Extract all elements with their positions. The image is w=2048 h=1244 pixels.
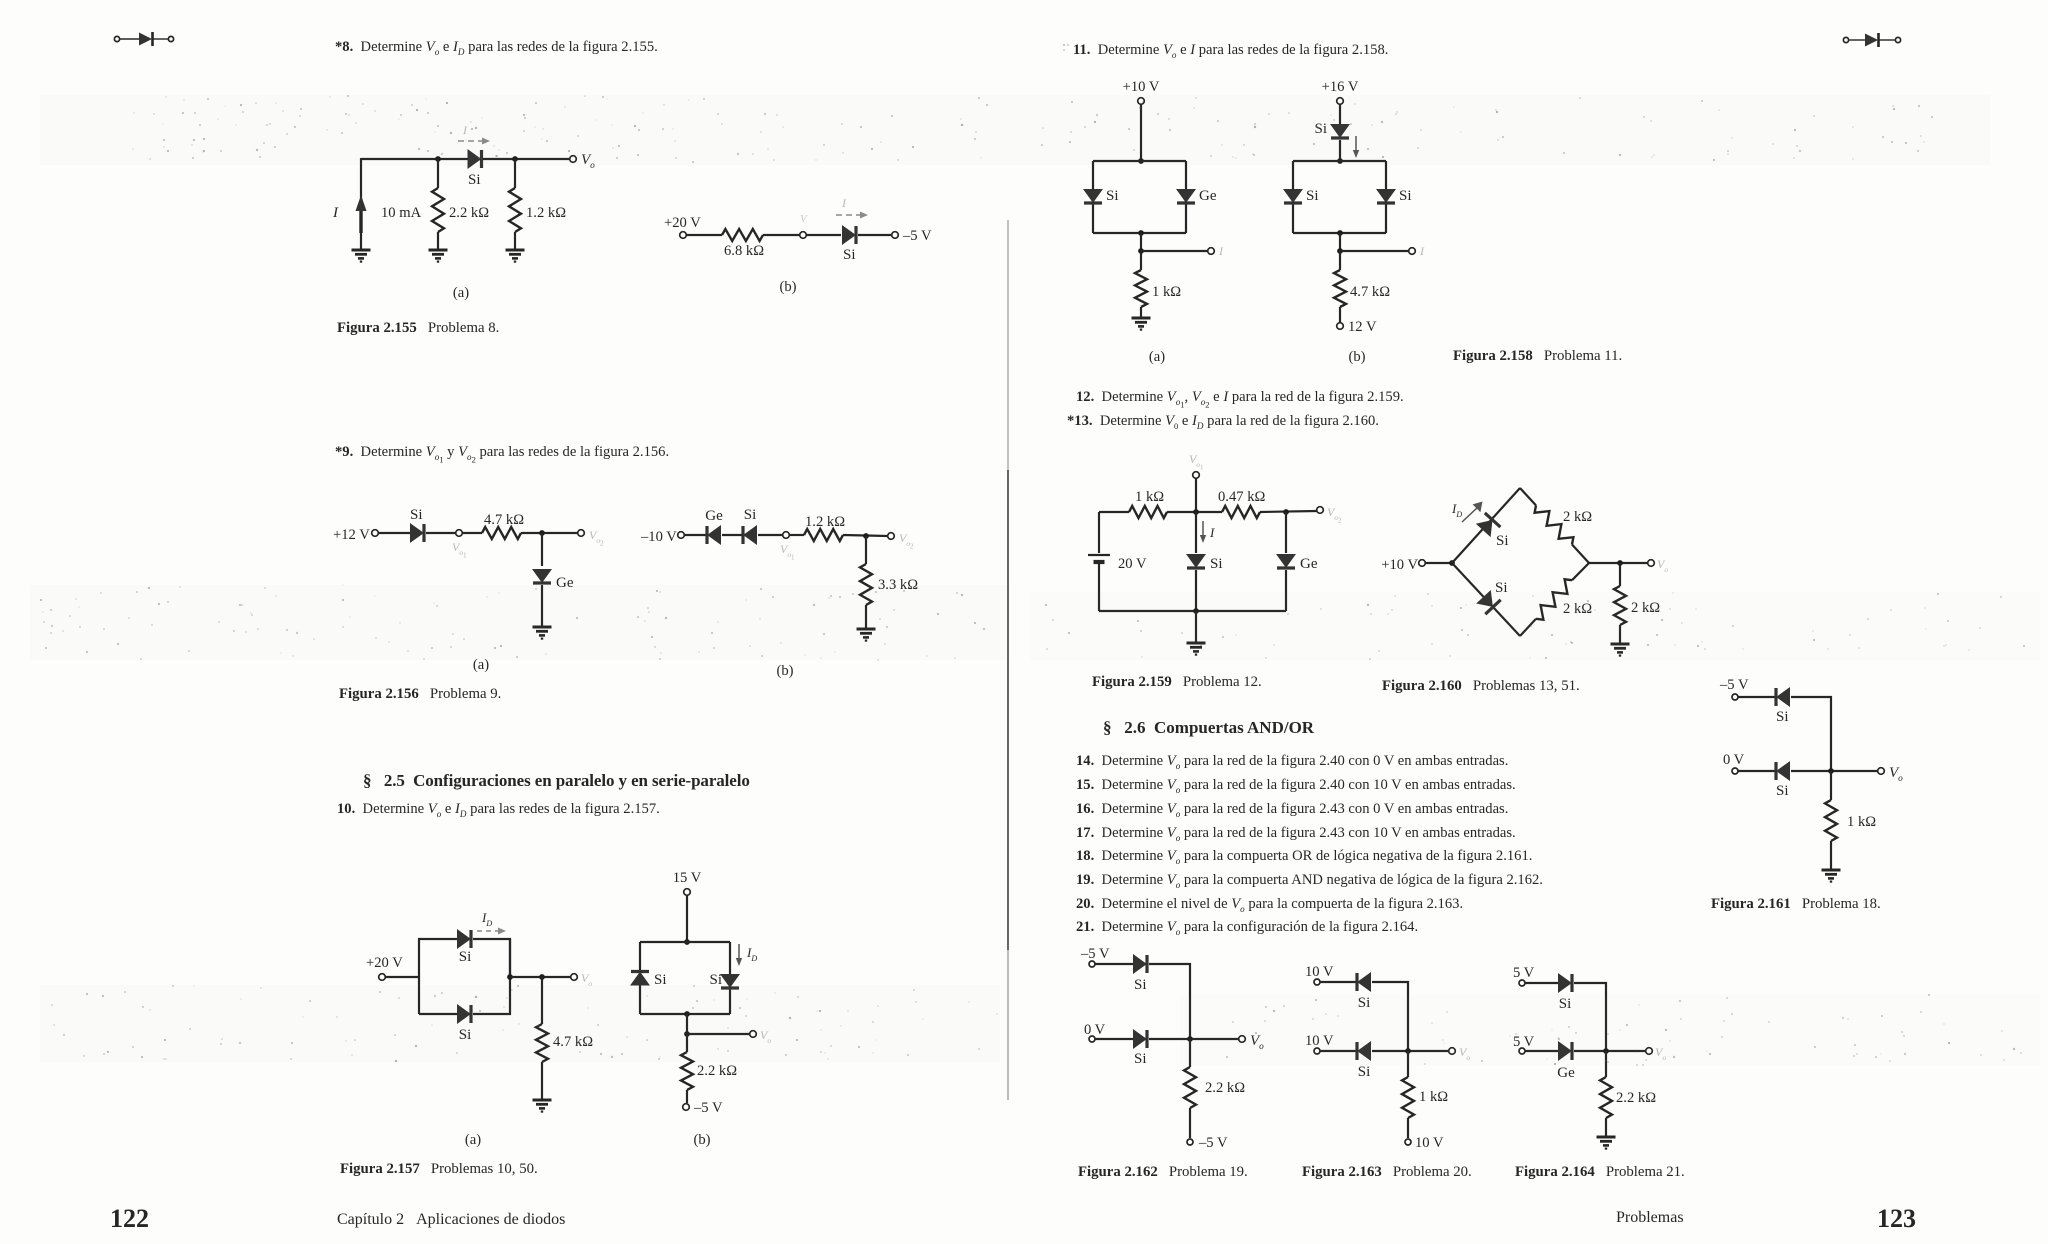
svg-text:(b): (b): [1348, 349, 1365, 365]
svg-text:Capítulo 2 Aplicaciones de d: Capítulo 2 Aplicaciones de diodos: [337, 1211, 565, 1228]
fig2.160 diode D1 Si (to top): [1477, 513, 1500, 536]
fig2.161 node: [1828, 768, 1834, 774]
fig2.156a wire diode to ground: [541, 585, 543, 626]
fig2.162 diode D2 Si (right): [1134, 1030, 1148, 1048]
svg-text:(a): (a): [465, 1132, 481, 1148]
svg-text:6.8 kΩ: 6.8 kΩ: [724, 243, 764, 259]
fig2.157b right diode Si (down): [721, 975, 739, 989]
svg-text:11. Determine Vo e I para las: 11. Determine Vo e I para las redes de l…: [1073, 42, 1388, 60]
svg-text:–10 V: –10 V: [640, 529, 677, 545]
page corner diode icon (right page): [1843, 33, 1900, 47]
fig2.157b node B: [684, 1031, 690, 1037]
fig2.163 resistor 1k: [1402, 1077, 1414, 1118]
svg-text:Figura 2.155 Problema 8.: Figura 2.155 Problema 8.: [337, 320, 499, 336]
fig2.160 input terminal: [1419, 560, 1426, 567]
fig2.163 bottom terminal: [1405, 1139, 1411, 1145]
fig2.158a top terminal: [1138, 98, 1145, 105]
fig2.164 resistor 2.2k: [1600, 1077, 1612, 1118]
fig2.159 resistor R2 0.47k: [1222, 506, 1260, 518]
fig2.162 node: [1187, 1036, 1193, 1042]
svg-text:12 V: 12 V: [1348, 319, 1377, 335]
svg-text:1 kΩ: 1 kΩ: [1419, 1089, 1448, 1105]
fig2.155a current arrow I (dashed): [458, 138, 490, 145]
stray print dots: [1063, 44, 1069, 51]
svg-text:(a): (a): [1149, 349, 1165, 365]
fig2.159 right branch wire bottom: [1285, 570, 1287, 611]
fig2.159 center branch wire bottom: [1195, 570, 1197, 611]
svg-text:Si: Si: [468, 172, 481, 188]
svg-text:Ge: Ge: [1557, 1065, 1575, 1081]
fig2.160 resistor lead: [1619, 563, 1621, 586]
fig2.157a output terminal Vo: [571, 974, 578, 981]
fig2.162 wire D1 to corner: [1149, 964, 1190, 1039]
fig2.158b bottom rail: [1293, 232, 1386, 234]
fig2.159 bottom rail: [1099, 610, 1286, 612]
svg-text:0 V: 0 V: [1084, 1022, 1106, 1038]
fig2.158a ground: [1132, 318, 1151, 330]
fig2.158b series diode Si (down): [1331, 125, 1349, 139]
fig2.158b left branch wire: [1292, 161, 1294, 233]
fig2.155b current arrow I (dashed): [836, 212, 868, 219]
svg-text:2.2 kΩ: 2.2 kΩ: [697, 1063, 737, 1079]
fig2.163 diode D2 Si (left): [1357, 1042, 1371, 1060]
fig2.156a wire node to resistor: [462, 532, 482, 534]
svg-text:10. Determine Vo e ID para la: 10. Determine Vo e ID para las redes de …: [337, 801, 660, 819]
fig2.162 resistor 2.2k: [1184, 1067, 1196, 1108]
fig2.160 wire to ground: [1619, 625, 1621, 643]
fig2.160 node (output branch): [1617, 560, 1623, 566]
svg-text:17. Determine Vo para la red: 17. Determine Vo para la red de la figur…: [1076, 825, 1516, 843]
fig2.163 wire D2 to node: [1372, 1050, 1449, 1052]
fig2.156a input terminal: [372, 530, 379, 537]
fig2.157b wire terminal to rail: [686, 895, 688, 942]
fig2.164 wire input2 to diode: [1525, 1050, 1558, 1052]
fig2.158a diode D1 Si (down): [1084, 190, 1102, 204]
fig2.155a resistor R2 lead: [514, 159, 516, 188]
svg-text:ID: ID: [1451, 501, 1462, 519]
svg-text:Vo: Vo: [1657, 557, 1668, 574]
svg-text:+16 V: +16 V: [1322, 79, 1359, 95]
fig2.158a resistor 1k: [1135, 270, 1147, 307]
fig2.156b wire resistor to node: [843, 535, 888, 536]
fig2.157b wire to output: [687, 1033, 750, 1035]
svg-text:Vo: Vo: [1889, 765, 1903, 784]
fig2.155a ground (R2): [506, 250, 525, 262]
fig2.157a dashed current arrow: [477, 928, 506, 935]
fig2.158a left branch wire: [1092, 161, 1094, 233]
scan tone wash bands: [30, 95, 2040, 1065]
fig2.164 input terminal 2: [1519, 1048, 1525, 1054]
fig2.156b resistor 1.2k: [804, 529, 843, 541]
fig2.156b input terminal: [678, 532, 685, 539]
svg-text:Vo1: Vo1: [1189, 452, 1204, 472]
svg-text:Si: Si: [1399, 188, 1412, 204]
svg-text:–5 V: –5 V: [1080, 946, 1110, 962]
fig2.156a node B: [539, 530, 545, 536]
page gutter line: [1007, 220, 1009, 1100]
fig2.156b node B: [863, 533, 869, 539]
fig2.160 bridge edge B-R with resistor: [1520, 563, 1589, 636]
fig2.157b current arrow ID: [736, 944, 742, 966]
fig2.158b top rail: [1293, 160, 1386, 162]
svg-text:I: I: [1209, 525, 1215, 540]
fig2.163 output terminal Vo: [1449, 1048, 1456, 1055]
fig2.159 diode Si (down): [1187, 555, 1205, 569]
fig2.160 output terminal Vo: [1648, 560, 1655, 567]
svg-text:2.2 kΩ: 2.2 kΩ: [1205, 1080, 1245, 1096]
svg-text:V: V: [800, 213, 808, 225]
svg-text:Figura 2.162 Problema 19.: Figura 2.162 Problema 19.: [1078, 1164, 1248, 1180]
svg-text:+10 V: +10 V: [1123, 79, 1160, 95]
fig2.160 ground: [1611, 644, 1630, 656]
fig2.161 wire D1 to corner: [1791, 697, 1831, 771]
svg-text:I: I: [841, 196, 847, 210]
fig2.159 battery 20V: [1088, 555, 1110, 562]
svg-text:+20 V: +20 V: [366, 955, 403, 971]
fig2.159 top rail right: [1260, 511, 1317, 512]
fig2.158a junction node (top): [1138, 158, 1144, 164]
svg-text:Si: Si: [1134, 977, 1147, 993]
fig2.156b wire node to resistor: [789, 534, 804, 536]
svg-text:10 V: 10 V: [1305, 964, 1334, 980]
fig2.155a wire top rail: [361, 158, 468, 160]
fig2.158a wire terminal to rail: [1140, 104, 1142, 161]
svg-text:Si: Si: [1776, 709, 1789, 725]
svg-text:+12 V: +12 V: [333, 527, 370, 543]
fig2.158a wire to node: [1140, 233, 1142, 251]
svg-text:Figura 2.156 Problema 9.: Figura 2.156 Problema 9.: [339, 686, 501, 702]
fig2.155b wire diode to output: [858, 234, 892, 236]
fig2.155a ground (current source): [352, 250, 371, 262]
fig2.158b wire to output: [1340, 250, 1409, 252]
fig2.161 wire input2 to diode: [1738, 770, 1775, 772]
fig2.161 diode D1 Si (left): [1776, 688, 1790, 706]
svg-text:Problemas: Problemas: [1616, 1209, 1684, 1226]
svg-text:20. Determine el nivel de Vo: 20. Determine el nivel de Vo para la com…: [1076, 896, 1463, 914]
fig2.160 node (left vertex): [1449, 560, 1455, 566]
fig2.158b node B: [1337, 248, 1343, 254]
fig2.156b wire to diode Ge: [684, 534, 706, 536]
fig2.155b input terminal: [680, 232, 687, 239]
fig2.160 bridge edge L-B: [1452, 563, 1520, 636]
fig2.155a diode D1 Si: [468, 150, 482, 168]
svg-text:(b): (b): [776, 663, 793, 679]
fig2.155a resistor R1 lead2: [437, 232, 439, 249]
fig2.158b right branch wire: [1385, 161, 1387, 233]
fig2.158b wire to node: [1339, 233, 1341, 251]
fig2.157b resistor lead: [686, 1034, 688, 1052]
svg-text:Figura 2.164 Problema 21.: Figura 2.164 Problema 21.: [1515, 1164, 1685, 1180]
fig2.162 output terminal Vo: [1239, 1036, 1246, 1043]
fig2.164 ground: [1597, 1137, 1616, 1149]
svg-text:–5 V: –5 V: [693, 1100, 723, 1116]
svg-text:Figura 2.161 Problema 18.: Figura 2.161 Problema 18.: [1711, 896, 1881, 912]
svg-text:2.2 kΩ: 2.2 kΩ: [449, 205, 489, 221]
fig2.155b diode Si: [843, 226, 857, 244]
fig2.158a wire to ground: [1140, 307, 1142, 317]
fig2.162 wire input1 to diode: [1095, 963, 1133, 965]
fig2.161 input terminal 2: [1732, 768, 1738, 774]
fig2.156b output terminal Vo2: [888, 533, 895, 540]
fig2.161 wire input1 to diode: [1738, 696, 1775, 698]
fig2.159 resistor R1 1k: [1129, 506, 1167, 518]
fig2.162 input terminal 1: [1089, 961, 1095, 967]
svg-text:Si: Si: [1776, 783, 1789, 799]
svg-text:ID: ID: [746, 945, 757, 963]
svg-text:(b): (b): [779, 279, 796, 295]
fig2.156b diode Si (left): [743, 526, 757, 544]
fig2.158b diode D1 Si (down): [1284, 190, 1302, 204]
fig2.160 resistor 2k (load): [1614, 586, 1626, 625]
svg-text:0 V: 0 V: [1723, 752, 1745, 768]
fig2.158a junction node (bottom): [1138, 230, 1144, 236]
svg-text:122: 122: [110, 1204, 149, 1233]
fig2.158b series current arrow: [1353, 136, 1359, 158]
fig2.157b top terminal: [684, 889, 691, 896]
fig2.159 diode Ge (down): [1277, 555, 1295, 569]
svg-text:16. Determine Vo para la red: 16. Determine Vo para la red de la figur…: [1076, 801, 1508, 819]
fig2.162 wire to bottom terminal: [1189, 1108, 1191, 1138]
fig2.157b junction node (top): [684, 939, 690, 945]
fig2.163 wire D1 to corner: [1372, 982, 1408, 1051]
fig2.157b top rail: [640, 941, 730, 943]
svg-text:123: 123: [1877, 1204, 1916, 1233]
svg-text:15. Determine Vo para la red: 15. Determine Vo para la red de la figur…: [1076, 777, 1516, 795]
fig2.162 input terminal 2: [1089, 1036, 1095, 1042]
fig2.156a node Vo1 (open): [456, 530, 463, 537]
svg-text:*8. Determine Vo e ID para la: *8. Determine Vo e ID para las redes de …: [335, 39, 658, 57]
svg-text:Vo2: Vo2: [1327, 505, 1342, 525]
fig2.155a resistor R1 2.2k: [432, 188, 444, 232]
svg-text:Si: Si: [1496, 533, 1509, 549]
fig2.158b diode D2 Si (down): [1377, 190, 1395, 204]
svg-text:10 mA: 10 mA: [381, 205, 422, 221]
svg-text:5 V: 5 V: [1513, 965, 1535, 981]
fig2.162 bottom terminal: [1187, 1139, 1193, 1145]
fig2.155a node B: [512, 156, 518, 162]
fig2.162 diode D1 Si (right): [1134, 955, 1148, 973]
svg-text:Figura 2.157 Problemas 10, 5: Figura 2.157 Problemas 10, 50.: [340, 1161, 538, 1177]
fig2.157b bottom terminal: [683, 1104, 690, 1111]
svg-text:Ge: Ge: [1199, 188, 1217, 204]
fig2.156b wire resistor to ground: [865, 605, 867, 628]
fig2.159 ground: [1187, 643, 1206, 655]
fig2.155a resistor R2 1.2k: [509, 188, 521, 232]
svg-text:I: I: [332, 205, 339, 221]
fig2.162 resistor lead: [1189, 1039, 1191, 1067]
fig2.163 wire input2 to diode: [1320, 1050, 1356, 1052]
fig2.157b resistor 2.2k: [681, 1052, 693, 1090]
fig2.159 left branch wire bottom: [1098, 564, 1100, 611]
svg-text:Si: Si: [1134, 1051, 1147, 1067]
fig2.156a ground: [533, 627, 552, 639]
svg-text:I: I: [1419, 244, 1425, 258]
fig2.164 resistor lead: [1605, 1051, 1607, 1077]
fig2.155b wire node to diode: [806, 234, 841, 236]
fig2.156b node Vo1 (open): [783, 532, 790, 539]
fig2.163 resistor lead: [1407, 1051, 1409, 1077]
fig2.156a wire to diode: [378, 532, 410, 534]
fig2.163 input terminal 1: [1314, 979, 1320, 985]
fig2.157a bottom rail: [419, 1013, 458, 1015]
fig2.163 diode D1 Si (left): [1357, 973, 1371, 991]
svg-text:18. Determine Vo para la comp: 18. Determine Vo para la compuerta OR de…: [1076, 848, 1532, 866]
fig2.161 ground: [1822, 870, 1841, 882]
fig2.158a top rail: [1093, 160, 1186, 162]
fig2.155a output terminal Vo: [570, 156, 577, 163]
fig2.156b resistor 3.3k: [860, 564, 872, 605]
svg-text:4.7 kΩ: 4.7 kΩ: [1350, 284, 1390, 300]
fig2.164 wire to ground: [1605, 1118, 1607, 1136]
fig2.159 junction node (bottom): [1193, 608, 1199, 614]
fig2.159 junction node (right): [1283, 509, 1289, 515]
fig2.160 bridge edge T-R with resistor: [1520, 488, 1589, 563]
fig2.161 wire D2 to node: [1791, 770, 1878, 772]
fig2.155b node (open): [800, 232, 807, 239]
fig2.159 left branch wire top: [1098, 512, 1100, 553]
fig2.164 input terminal 1: [1519, 980, 1525, 986]
fig2.164 output terminal Vo: [1646, 1048, 1653, 1055]
svg-text:Figura 2.160 Problemas 13, 5: Figura 2.160 Problemas 13, 51.: [1382, 678, 1580, 694]
svg-text:Vo2: Vo2: [589, 528, 604, 548]
svg-text:+20 V: +20 V: [664, 215, 701, 231]
fig2.156b wire Si to node: [758, 534, 782, 536]
fig2.156a diode Ge (down): [533, 570, 551, 584]
fig2.161 input terminal 1: [1732, 694, 1738, 700]
fig2.159 right branch wire: [1285, 512, 1287, 553]
fig2.156a diode Si: [411, 524, 425, 542]
fig2.157a wire to output: [510, 976, 571, 978]
fig2.157b right branch wire: [729, 942, 731, 1014]
fig2.155a wire left branch: [360, 158, 362, 249]
fig2.157a bottom diode D2 Si: [458, 1005, 472, 1023]
svg-text:*13. Determine V0 e ID para l: *13. Determine V0 e ID para la red de la…: [1067, 413, 1379, 431]
svg-text:ID: ID: [481, 910, 492, 928]
svg-text:2.2 kΩ: 2.2 kΩ: [1616, 1090, 1656, 1106]
svg-text:19. Determine Vo para la comp: 19. Determine Vo para la compuerta AND n…: [1076, 872, 1543, 890]
svg-text:2 kΩ: 2 kΩ: [1563, 509, 1592, 525]
fig2.155b wire to resistor: [686, 234, 722, 236]
fig2.159 current arrow I: [1200, 521, 1206, 543]
fig2.155a current source I arrow: [356, 195, 367, 233]
fig2.156a wire diode to node: [426, 532, 455, 534]
fig2.159 top rail mid: [1167, 511, 1222, 513]
fig2.155a node A: [435, 156, 441, 162]
fig2.158b top terminal: [1337, 98, 1344, 105]
fig2.156a output terminal Vo2: [578, 530, 585, 537]
fig2.157a wire input to junction: [385, 976, 419, 978]
fig2.158b wire terminal to diode: [1339, 104, 1341, 124]
svg-text:*9. Determine Vo1 y Vo2 para: *9. Determine Vo1 y Vo2 para las redes d…: [335, 444, 669, 465]
scan speckle texture: [40, 95, 2025, 1066]
svg-text:Ge: Ge: [1300, 556, 1318, 572]
fig2.156a resistor 4.7k: [482, 527, 521, 539]
fig2.156b wire node to resistor 3.3k: [865, 536, 867, 564]
fig2.155a ground (R1): [429, 250, 448, 262]
svg-text:I: I: [1218, 244, 1224, 258]
fig2.156b wire Ge to Si: [722, 534, 742, 536]
svg-text:+10 V: +10 V: [1381, 557, 1418, 573]
fig2.163 wire to bottom terminal: [1407, 1118, 1409, 1138]
fig2.157b junction node (bottom): [684, 1011, 690, 1017]
svg-text:Si: Si: [1358, 1064, 1371, 1080]
fig2.158a bottom rail: [1093, 232, 1186, 234]
fig2.157a left branch wire: [419, 939, 458, 1014]
fig2.159 output terminal Vo2: [1317, 507, 1324, 514]
fig2.159 junction node (center): [1193, 509, 1199, 515]
svg-text:Figura 2.163 Problema 20.: Figura 2.163 Problema 20.: [1302, 1164, 1472, 1180]
fig2.155b output terminal: [892, 232, 899, 239]
fig2.158a diode D2 Ge (down): [1177, 190, 1195, 204]
fig2.155a resistor R1 lead: [437, 159, 439, 188]
fig2.157b left branch wire: [639, 942, 641, 1014]
svg-text:–5 V: –5 V: [1198, 1135, 1228, 1151]
svg-text:21. Determine Vo para la conf: 21. Determine Vo para la configuración d…: [1076, 919, 1418, 937]
fig2.163 input terminal 2: [1314, 1048, 1320, 1054]
fig2.162 wire D2 to node: [1149, 1038, 1239, 1040]
fig2.161 resistor lead: [1830, 771, 1832, 800]
fig2.158a right branch wire: [1185, 161, 1187, 233]
svg-text:Si: Si: [1306, 188, 1319, 204]
page corner diode icon (left page): [114, 32, 173, 46]
svg-text:1.2 kΩ: 1.2 kΩ: [526, 205, 566, 221]
fig2.157a top diode D1 Si: [458, 930, 472, 948]
fig2.159 top rail: [1099, 511, 1129, 513]
svg-text:Si: Si: [1210, 556, 1223, 572]
fig2.164 wire D1 to corner: [1574, 983, 1606, 1051]
svg-text:Si: Si: [843, 247, 856, 263]
fig2.158b output terminal: [1409, 248, 1416, 255]
fig2.157a resistor lead: [541, 977, 543, 1024]
svg-text:(a): (a): [453, 285, 469, 301]
fig2.159 wire terminal to rail: [1195, 478, 1197, 512]
fig2.157a resistor to ground wire: [541, 1062, 543, 1099]
fig2.160 wire to bridge: [1425, 562, 1452, 564]
fig2.164 wire input1 to diode: [1525, 982, 1558, 984]
fig2.158b resistor lead: [1339, 251, 1341, 270]
fig2.158b junction node (top): [1337, 158, 1343, 164]
fig2.161 diode D2 Si (left): [1776, 762, 1790, 780]
fig2.164 diode D1 Si (right): [1559, 974, 1573, 992]
fig2.156b diode Ge (left): [707, 526, 721, 544]
svg-text:Vo1: Vo1: [452, 540, 467, 560]
svg-text:Si: Si: [459, 949, 472, 965]
fig2.157b output terminal Vo: [750, 1031, 757, 1038]
fig2.159 center branch wire: [1195, 512, 1197, 553]
svg-text:Figura 2.159 Problema 12.: Figura 2.159 Problema 12.: [1092, 674, 1262, 690]
fig2.162 wire input2 to diode: [1095, 1038, 1133, 1040]
svg-text:Vo1: Vo1: [780, 542, 795, 562]
svg-text:1 kΩ: 1 kΩ: [1847, 814, 1876, 830]
fig2.157b left diode Si (up): [631, 972, 649, 986]
fig2.160 current arrow ID: [1462, 502, 1483, 523]
fig2.155a wire diode to output: [483, 158, 573, 160]
fig2.157a ground: [533, 1100, 552, 1112]
fig2.164 node: [1603, 1048, 1609, 1054]
svg-text:14. Determine Vo para la red: 14. Determine Vo para la red de la figur…: [1076, 753, 1508, 771]
svg-text:20 V: 20 V: [1118, 556, 1147, 572]
fig2.164 diode D2 Ge (right): [1559, 1042, 1573, 1060]
fig2.155b wire resistor to node: [763, 234, 800, 236]
fig2.163 node: [1405, 1048, 1411, 1054]
svg-text:1 kΩ: 1 kΩ: [1152, 284, 1181, 300]
fig2.158b wire diode to rail: [1339, 140, 1341, 161]
fig2.160 wire right vertex to output: [1589, 562, 1648, 564]
fig2.157b bottom rail: [640, 1013, 730, 1015]
fig2.157a resistor 4.7k: [536, 1024, 548, 1062]
svg-text:–5 V: –5 V: [902, 228, 932, 244]
svg-text:10 V: 10 V: [1415, 1135, 1444, 1151]
